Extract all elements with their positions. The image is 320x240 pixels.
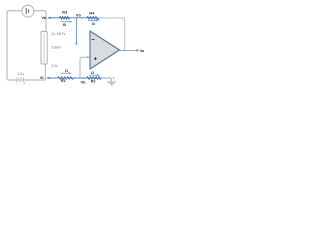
wire output <box>120 49 137 51</box>
op-amp minus <box>92 38 95 40</box>
node Vo dot <box>136 49 138 51</box>
svg-text:R1: R1 <box>61 78 67 83</box>
op-amp plus <box>94 57 97 60</box>
resistor R2 <box>87 77 101 79</box>
svg-text:R4: R4 <box>89 10 95 15</box>
resistor R3 <box>60 17 70 19</box>
current arrow I3 <box>61 21 70 23</box>
node dot at ground junction <box>113 77 115 79</box>
resistor R4 <box>87 17 98 19</box>
wire Va to R3 <box>48 17 60 19</box>
current arrow I2 <box>89 74 98 76</box>
wire Vb node to inverting path (vertical) <box>75 18 77 43</box>
node Vb top arrow <box>80 17 83 19</box>
node junction output/feedback <box>124 50 126 52</box>
node Vt arrow <box>46 77 49 79</box>
wire box bottom to rail <box>44 64 46 80</box>
node Vb bottom arrow <box>80 77 83 79</box>
wire R3 to R4 <box>70 17 88 19</box>
wire R2 to ground <box>101 78 111 82</box>
op-amp U1 <box>90 31 120 69</box>
svg-text:12v: 12v <box>51 63 58 68</box>
svg-text:R3: R3 <box>62 9 68 14</box>
svg-text:Vb: Vb <box>76 13 82 18</box>
ground <box>107 82 116 85</box>
svg-text:Vo: Vo <box>140 48 145 53</box>
wire top-left gray loop <box>7 11 22 80</box>
wire Vt to R1 <box>47 77 59 79</box>
svg-text:Vb: Vb <box>81 79 87 84</box>
current arrow I4 <box>88 19 97 21</box>
source V1 (circle) <box>22 5 34 17</box>
resistor R1 <box>58 77 73 79</box>
arrow into non-inverting input <box>87 56 89 58</box>
svg-text:R2: R2 <box>91 79 97 84</box>
wire R1 to R2 <box>73 77 87 79</box>
arrow into inverting input <box>97 18 99 21</box>
current arrow I1 <box>60 72 70 74</box>
svg-text:12v: 12v <box>18 71 25 76</box>
wire non-inverting stub <box>80 57 87 78</box>
battery B1 12v <box>17 77 23 82</box>
svg-text:11.967v: 11.967v <box>51 31 66 36</box>
wire feedback from R4 node to output <box>98 18 124 51</box>
resistor box (sensor) <box>41 32 47 65</box>
node Va arrow <box>48 17 51 19</box>
wire battery to Vt junction <box>23 79 45 81</box>
wire circle to top-right corner down to box <box>33 11 46 32</box>
svg-text:33mv: 33mv <box>51 44 61 49</box>
